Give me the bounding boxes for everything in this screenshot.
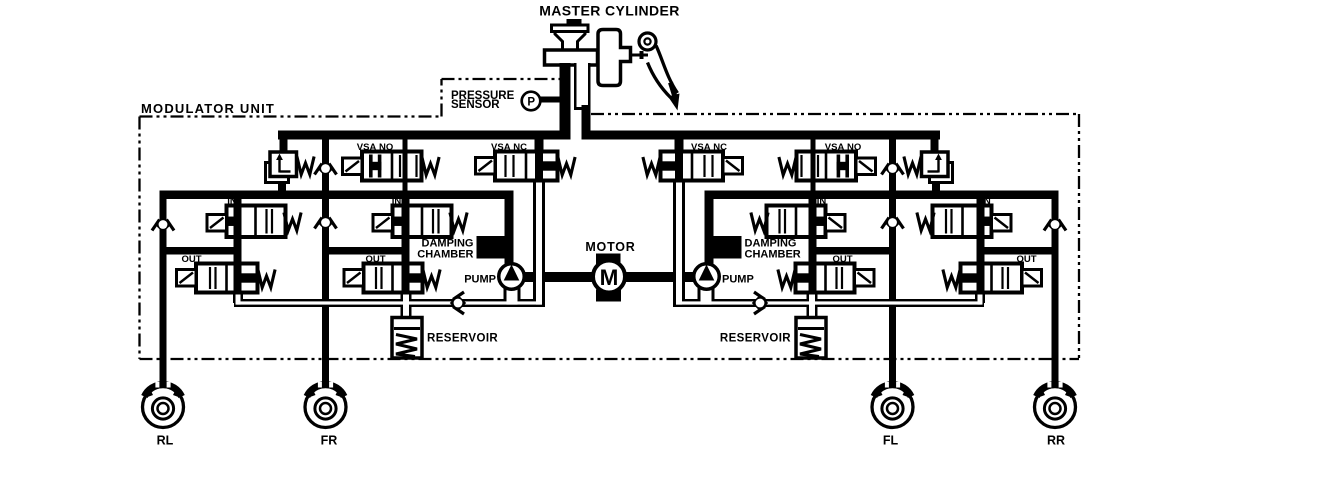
spring OUT2 left xyxy=(423,270,440,288)
brake pedal arm xyxy=(648,46,678,98)
spring IN1 left xyxy=(284,213,301,231)
check valve FL column upper xyxy=(882,160,904,176)
solenoid IN1 left xyxy=(207,215,227,232)
wheel FL xyxy=(872,382,914,428)
wire VSA NC top port left xyxy=(535,138,544,153)
solenoid OUT1 left xyxy=(177,270,197,287)
spring VSA NC right xyxy=(643,157,660,175)
spring IN2 left xyxy=(450,213,467,231)
pedal force arrow xyxy=(668,83,680,111)
pump right xyxy=(694,264,720,290)
label DAMPING CHAMBER right xyxy=(745,238,801,261)
wire pressure sensor link xyxy=(540,97,560,103)
master cylinder reservoir funnel xyxy=(555,32,585,51)
spring OUT1 right xyxy=(943,270,960,288)
wire wheel FR line xyxy=(322,140,329,389)
solenoid OUT2 right xyxy=(855,270,875,287)
wire relief valve top port left xyxy=(280,138,288,153)
wire rail 3a left xyxy=(160,247,242,255)
solenoid OUT2 left xyxy=(344,270,364,287)
wire IN2 ports left xyxy=(402,197,410,249)
spring VSA NC left xyxy=(558,157,575,175)
solenoid IN2 right xyxy=(826,215,846,232)
wire rail 2 left xyxy=(160,191,514,200)
solenoid VSA NO right xyxy=(856,158,876,175)
solenoid VSA NC left xyxy=(476,158,496,175)
label VSA NO right xyxy=(825,142,861,153)
wire master cylinder port 1 xyxy=(560,63,571,140)
svg-text:P: P xyxy=(527,96,535,108)
spring relief valve right xyxy=(904,157,921,175)
svg-text:PUMP: PUMP xyxy=(722,274,754,286)
modulator unit boundary xyxy=(140,79,1080,359)
solenoid IN2 left xyxy=(373,215,393,232)
svg-text:CHAMBER: CHAMBER xyxy=(417,249,473,261)
wire wheel RL line xyxy=(160,191,167,389)
wire rail 3a right xyxy=(977,247,1059,255)
label RESERVOIR left xyxy=(427,333,498,345)
svg-text:FL: FL xyxy=(883,434,899,448)
valve IN1 left xyxy=(227,206,286,238)
wire supply drop left xyxy=(403,140,408,191)
label PUMP right xyxy=(722,274,754,286)
valve IN2 left xyxy=(393,206,452,238)
brake pedal pivot xyxy=(639,33,656,50)
label IN2 right xyxy=(817,196,827,207)
damping chamber right xyxy=(712,236,742,259)
wire wheel FL line xyxy=(889,140,896,389)
svg-text:CHAMBER: CHAMBER xyxy=(745,249,801,261)
wire top bus left xyxy=(278,131,571,140)
valve OUT2 right xyxy=(796,264,855,293)
master cylinder reservoir cap xyxy=(552,19,589,32)
label OUT1 left xyxy=(181,254,201,265)
label RR xyxy=(1047,434,1065,448)
spring IN1 right xyxy=(917,213,934,231)
label MOTOR xyxy=(585,240,635,254)
check valve pump suction left xyxy=(450,292,466,314)
reservoir left xyxy=(392,318,422,359)
wire relief valve bottom port left xyxy=(278,175,286,192)
svg-text:FR: FR xyxy=(321,434,338,448)
wire top bus right xyxy=(582,131,941,140)
wheel RL xyxy=(142,382,184,428)
svg-text:PUMP: PUMP xyxy=(464,274,496,286)
label RL xyxy=(157,434,174,448)
reservoir right xyxy=(796,318,826,359)
solenoid OUT1 right xyxy=(1022,270,1042,287)
spring OUT1 left xyxy=(258,270,275,288)
wire OUT2 top port left xyxy=(402,253,410,266)
pipe return network right xyxy=(673,181,985,320)
svg-text:SENSOR: SENSOR xyxy=(451,99,500,111)
wire OUT1 top port right xyxy=(977,253,985,266)
check valve RR column xyxy=(1044,216,1066,232)
svg-text:RESERVOIR: RESERVOIR xyxy=(427,333,498,345)
spring relief valve left xyxy=(297,157,314,175)
label VSA NC right xyxy=(691,142,727,153)
label IN1 right xyxy=(981,196,991,207)
wheel FR xyxy=(305,382,347,428)
wire master cylinder port 2 pipe xyxy=(574,63,591,140)
wire IN1 ports left xyxy=(234,197,242,249)
valve OUT2 left xyxy=(364,264,423,293)
brake booster xyxy=(598,30,631,86)
wire rail 2 right xyxy=(705,191,1059,200)
pressure sensor P xyxy=(522,92,541,111)
svg-text:RL: RL xyxy=(157,434,174,448)
valve IN2 right xyxy=(767,206,826,238)
valve VSA NC right xyxy=(661,152,724,181)
label RESERVOIR right xyxy=(720,333,791,345)
valve VSA NC left xyxy=(495,152,558,181)
label MODULATOR UNIT xyxy=(141,101,275,116)
master cylinder body xyxy=(545,50,598,65)
wire relief valve top port right xyxy=(931,138,939,153)
label OUT1 right xyxy=(1016,254,1036,265)
wire VSA NC top port right xyxy=(675,138,684,153)
damping chamber left xyxy=(477,236,507,259)
check valve FL column lower xyxy=(882,214,904,230)
valve VSA NO left xyxy=(362,141,422,191)
svg-text:RESERVOIR: RESERVOIR xyxy=(720,333,791,345)
solenoid IN1 right xyxy=(992,215,1012,232)
wire OUT1 top port left xyxy=(234,253,242,266)
label PUMP left xyxy=(464,274,496,286)
label VSA NC left xyxy=(491,142,527,153)
wire pump feed left xyxy=(505,199,514,266)
wire IN1 ports right xyxy=(977,197,985,249)
spring VSA NO right xyxy=(779,157,796,175)
svg-text:RR: RR xyxy=(1047,434,1065,448)
valve IN1 right xyxy=(933,206,992,238)
label VSA NO left xyxy=(357,142,393,153)
label DAMPING CHAMBER left xyxy=(417,238,473,261)
wire relief valve bottom port right xyxy=(932,175,940,192)
wire wheel RR line xyxy=(1052,191,1059,389)
label MASTER CYLINDER xyxy=(539,3,680,19)
label OUT2 left xyxy=(365,254,385,265)
wire wheel RL drop xyxy=(160,385,167,391)
motor M xyxy=(593,254,625,302)
label IN1 left xyxy=(227,196,237,207)
check valve FR column upper xyxy=(315,160,337,176)
spring OUT2 right xyxy=(778,270,795,288)
pushrod xyxy=(631,51,649,59)
solenoid VSA NO left xyxy=(343,158,363,175)
label OUT2 right xyxy=(832,254,852,265)
label IN2 left xyxy=(392,196,402,207)
wire pump motor shaft xyxy=(524,272,694,282)
check valve RL column xyxy=(152,216,174,232)
label PRESSURE SENSOR xyxy=(451,90,515,111)
solenoid VSA NC right xyxy=(723,158,743,175)
relief valve right xyxy=(922,152,953,183)
svg-text:MODULATOR UNIT: MODULATOR UNIT xyxy=(141,101,275,116)
pipe return network left xyxy=(233,181,545,320)
wire IN2 ports right xyxy=(809,197,817,249)
valve OUT1 right xyxy=(961,264,1023,293)
wire rail 3b right xyxy=(809,247,897,255)
label FL xyxy=(883,434,899,448)
svg-text:MOTOR: MOTOR xyxy=(585,240,635,254)
valve OUT1 left xyxy=(196,264,258,293)
spring IN2 right xyxy=(751,213,768,231)
valve VSA NO right xyxy=(797,141,857,191)
wire rail 3b left xyxy=(322,247,410,255)
check valve pump suction right xyxy=(752,292,768,314)
svg-text:MASTER CYLINDER: MASTER CYLINDER xyxy=(539,3,680,19)
svg-text:M: M xyxy=(600,265,619,290)
check valve FR column lower xyxy=(315,214,337,230)
pump left xyxy=(499,264,525,290)
wire pump feed right xyxy=(705,199,714,266)
label FR xyxy=(321,434,338,448)
relief valve left xyxy=(266,152,297,183)
wire OUT2 top port right xyxy=(809,253,817,266)
spring VSA NO left xyxy=(422,157,439,175)
wheel RR xyxy=(1034,382,1076,428)
wire supply drop right xyxy=(811,140,816,191)
